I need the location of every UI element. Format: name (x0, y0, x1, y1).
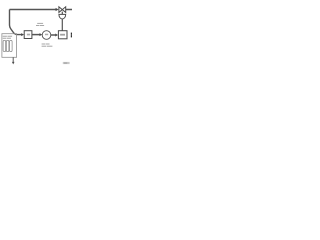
valve V1 (control valve bowtie) (59, 7, 66, 13)
wire: top feed pipe horizontal (10, 9, 57, 11)
box B2 (setpoint unit) (58, 31, 67, 39)
label: box B1 text (27, 34, 30, 36)
label: faint bottom-right text (63, 62, 70, 64)
node: mark at right edge (71, 33, 72, 38)
wire: valve stem (61, 12, 63, 15)
label: vessel text line 2 (3, 38, 11, 39)
label: vessel text line 1 (3, 36, 12, 37)
wire: pipe right of valve to edge (66, 9, 72, 11)
box B1 (liquid feed unit) (24, 31, 32, 39)
coil (heating coil loop 3) (10, 40, 13, 51)
label: text above controller line 2 (36, 25, 44, 26)
wire: drain arrowhead down (12, 62, 15, 65)
wire: flow arrowhead before valve V1 (56, 8, 59, 11)
coil (heating coil loop 1) (3, 40, 6, 51)
label: text below controller line 1 (42, 44, 50, 45)
vessel T1 (vaporizer tank) (2, 34, 17, 58)
label: controller circle text (45, 34, 48, 36)
wire: arrowhead into box B2 (55, 34, 58, 37)
coil (heating coil loop 2) (6, 40, 9, 51)
instrument FC (flow controller circle) (42, 31, 51, 40)
wire: pneumatic signal line from controller box to actuator (61, 19, 63, 31)
label: text below controller line 2 (42, 46, 53, 47)
wire: drain line below vessel (12, 57, 14, 62)
wire: left feed drop with bend into vaporizer outlet line (10, 10, 22, 35)
label: box B2 text (60, 34, 65, 36)
actuator A1 (diaphragm dome below valve) (59, 14, 66, 19)
wire: arrowhead into controller FC (40, 33, 43, 36)
wire: arrowhead into box B1 (21, 33, 24, 36)
wire: pipe B1 to controller circle (32, 34, 40, 36)
wire: pipe controller to box B2 (51, 34, 56, 36)
label: text above controller line 1 (37, 23, 43, 24)
